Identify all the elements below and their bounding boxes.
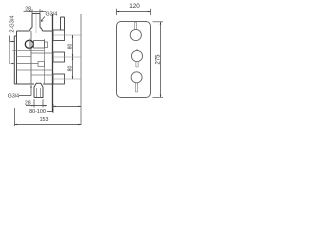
svg-text:G3/4: G3/4 [46, 12, 58, 18]
dim 120: dimension line [117, 11, 151, 13]
dim 80/80 vertical line [72, 35, 74, 79]
knob 3 stem [135, 83, 137, 92]
body bottom edge [17, 83, 53, 85]
bottom pipe stub (G3/4 inlet down) [34, 83, 43, 97]
svg-text:80: 80 [68, 66, 74, 72]
small body box [38, 62, 45, 67]
top stub shoulders [30, 28, 43, 32]
circle centerline [28, 39, 30, 52]
dim 275: extension lines [153, 22, 164, 98]
rear port stub middle [53, 52, 65, 62]
bottom stub inner pipe [37, 88, 41, 98]
mounting flange (left edge double line) [14, 31, 16, 84]
top rear pipe (shower outlet up) [61, 17, 65, 30]
body top edge [17, 30, 53, 32]
svg-text:28: 28 [25, 100, 31, 106]
svg-text:153: 153 [40, 117, 49, 123]
dim 28 bottom: extension lines [34, 99, 43, 107]
dim 80-100 [52, 104, 54, 113]
top stub centerline [35, 12, 37, 34]
dim 28 top arrows [29, 11, 42, 13]
dim 275: dimension line [160, 22, 162, 98]
port centerlines to wall [53, 35, 81, 79]
knob 3 (bottom) [131, 72, 142, 83]
dim 28 top: dimension line [24, 10, 47, 12]
valve mounting plate line [52, 14, 54, 112]
knob 1 (top) [130, 29, 141, 40]
side port circle [25, 40, 33, 48]
knob 2 nub [136, 49, 138, 51]
cover plate [117, 22, 151, 98]
knob 1 stem [135, 23, 137, 30]
rear port stub bottom [53, 74, 65, 84]
svg-text:28: 28 [25, 6, 31, 12]
wall finished-surface line [80, 14, 82, 125]
svg-text:80-100: 80-100 [29, 109, 46, 115]
leader G3/4 bottom [19, 85, 31, 96]
rear port stub top [53, 30, 65, 41]
svg-text:G3/4: G3/4 [8, 94, 19, 100]
body internal horizontal lines [13, 50, 45, 52]
cartridge adapter [45, 42, 48, 48]
svg-text:120: 120 [129, 3, 140, 10]
leader G3/4 top [41, 17, 45, 21]
knob 2 (middle) [131, 50, 142, 61]
cartridge block [34, 41, 45, 48]
main body left block [30, 31, 32, 84]
svg-text:275: 275 [156, 54, 162, 65]
knob 2 stem [136, 62, 138, 67]
svg-text:2-G3/4: 2-G3/4 [10, 15, 16, 32]
dim 28 top: extension lines [32, 9, 40, 13]
leader 2-G3/4 [10, 36, 15, 42]
top pipe stub (G3/4 outlet up) [32, 14, 40, 28]
dim 28 bottom: dimension line [26, 105, 47, 107]
svg-text:80: 80 [68, 44, 74, 50]
dim 153 [15, 108, 82, 126]
dim 120: extension lines [117, 9, 151, 15]
body inner vertical [44, 39, 46, 84]
